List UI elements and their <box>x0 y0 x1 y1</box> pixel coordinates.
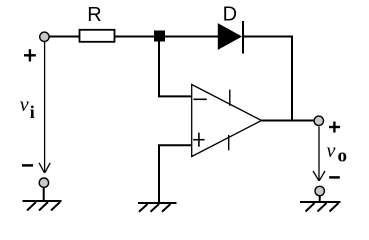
wire lower input terminal to ground <box>43 187 45 202</box>
middle ground <box>138 203 177 212</box>
op-amp U1 triangle <box>192 85 262 157</box>
V+ supply tick <box>229 90 231 106</box>
resistor R <box>80 30 115 42</box>
V- supply tick <box>228 135 230 150</box>
wire diode to top-right corner <box>243 36 293 38</box>
wire resistor to node A <box>115 36 159 38</box>
svg-text:v: v <box>327 140 336 162</box>
lower input terminal <box>39 178 48 187</box>
svg-text:v: v <box>20 94 29 116</box>
wire op-amp output <box>261 120 315 122</box>
diode D cathode bar <box>242 21 244 54</box>
diode D triangle <box>218 24 241 49</box>
input arrow shaft <box>44 42 46 173</box>
input terminal (top left) <box>40 32 49 41</box>
left ground <box>23 201 62 211</box>
svg-text:R: R <box>87 4 101 26</box>
lower output terminal <box>315 186 324 195</box>
inverting input minus symbol <box>194 98 207 100</box>
svg-text:D: D <box>223 4 237 26</box>
output terminal (right) <box>314 116 323 125</box>
wire lower output terminal to ground <box>319 196 321 203</box>
svg-text:i: i <box>30 102 35 122</box>
node A junction <box>154 31 165 42</box>
label - (output) <box>329 176 340 179</box>
input arrowhead <box>39 163 50 173</box>
label + (output) <box>329 122 340 133</box>
output arrowhead <box>313 171 325 181</box>
non-inverting input plus symbol <box>193 133 204 147</box>
label + (input) <box>24 49 36 61</box>
wire into non-inverting input <box>158 144 192 146</box>
wire non-inverting input down to ground <box>158 145 160 202</box>
right ground <box>300 202 341 212</box>
wire input terminal to resistor <box>49 36 80 38</box>
svg-text:o: o <box>338 146 348 167</box>
wire node A down to inverting input <box>158 37 160 97</box>
output arrow shaft <box>318 127 320 181</box>
label - (input) <box>22 164 33 167</box>
feedback wire down right side <box>291 36 293 121</box>
wire into inverting input <box>158 95 192 97</box>
wire node A to diode <box>159 36 219 38</box>
